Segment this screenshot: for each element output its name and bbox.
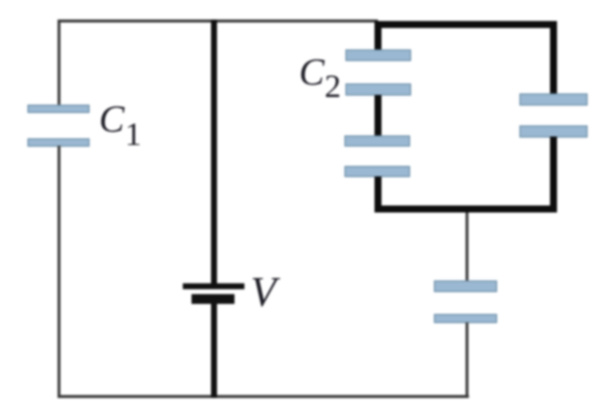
- svg-text:C: C: [99, 99, 125, 141]
- inner loop: right edge segment 1 (top edge down to right capacitor): [550, 21, 557, 95]
- capacitor (bottom branch): bottom plate: [435, 315, 497, 323]
- capacitor C2 lower: bottom plate: [345, 167, 410, 177]
- battery V top plate (long thin): [183, 283, 245, 289]
- capacitor C1 bottom plate: [28, 139, 89, 146]
- inner loop: left edge segment 3 (lower capacitor to bottom edge): [375, 177, 382, 213]
- svg-text:C: C: [299, 52, 325, 94]
- wire: bottom horizontal (thin) from bottom-left corner to bottom capacitor lead: [58, 395, 469, 398]
- inner loop: top edge (thick): [375, 21, 558, 28]
- inner loop: left edge segment 1 (top wire to C2 upper capacitor): [375, 21, 382, 51]
- inner loop: right edge segment 2 (right capacitor down to bottom edge): [550, 137, 557, 213]
- inner loop: left edge segment 2 (between the two series capacitors): [375, 95, 382, 136]
- capacitor (bottom branch): top plate: [435, 281, 497, 292]
- capacitor C2 upper: bottom plate: [346, 84, 411, 95]
- svg-text:V: V: [251, 270, 281, 316]
- capacitor C2 lower: top plate: [345, 136, 410, 146]
- capacitor C1 top plate: [28, 105, 89, 112]
- wire: middle battery branch upper segment (thick): [211, 20, 217, 286]
- capacitor C2 upper: top plate: [346, 50, 411, 61]
- capacitor (right branch): bottom plate: [520, 126, 587, 137]
- battery V bottom plate (short thick): [192, 294, 235, 304]
- svg-text:2: 2: [325, 69, 342, 105]
- wire: left vertical upper segment (top-left corner down to C1 top plate): [58, 20, 61, 106]
- capacitor (right branch): top plate: [520, 94, 587, 105]
- wire: middle battery branch lower segment (thick): [211, 299, 217, 398]
- wire: left vertical lower segment (C1 bottom plate down to bottom-left corner): [58, 146, 61, 398]
- inner loop: bottom edge (thick): [375, 206, 558, 213]
- wire: bottom branch lower lead (bottom capacitor down to bottom wire): [466, 323, 469, 397]
- wire: bottom branch upper lead (box bottom down to bottom capacitor): [466, 213, 469, 282]
- svg-text:1: 1: [125, 117, 142, 153]
- wire: top horizontal (thin) from top-left corner to inner box: [58, 20, 378, 23]
